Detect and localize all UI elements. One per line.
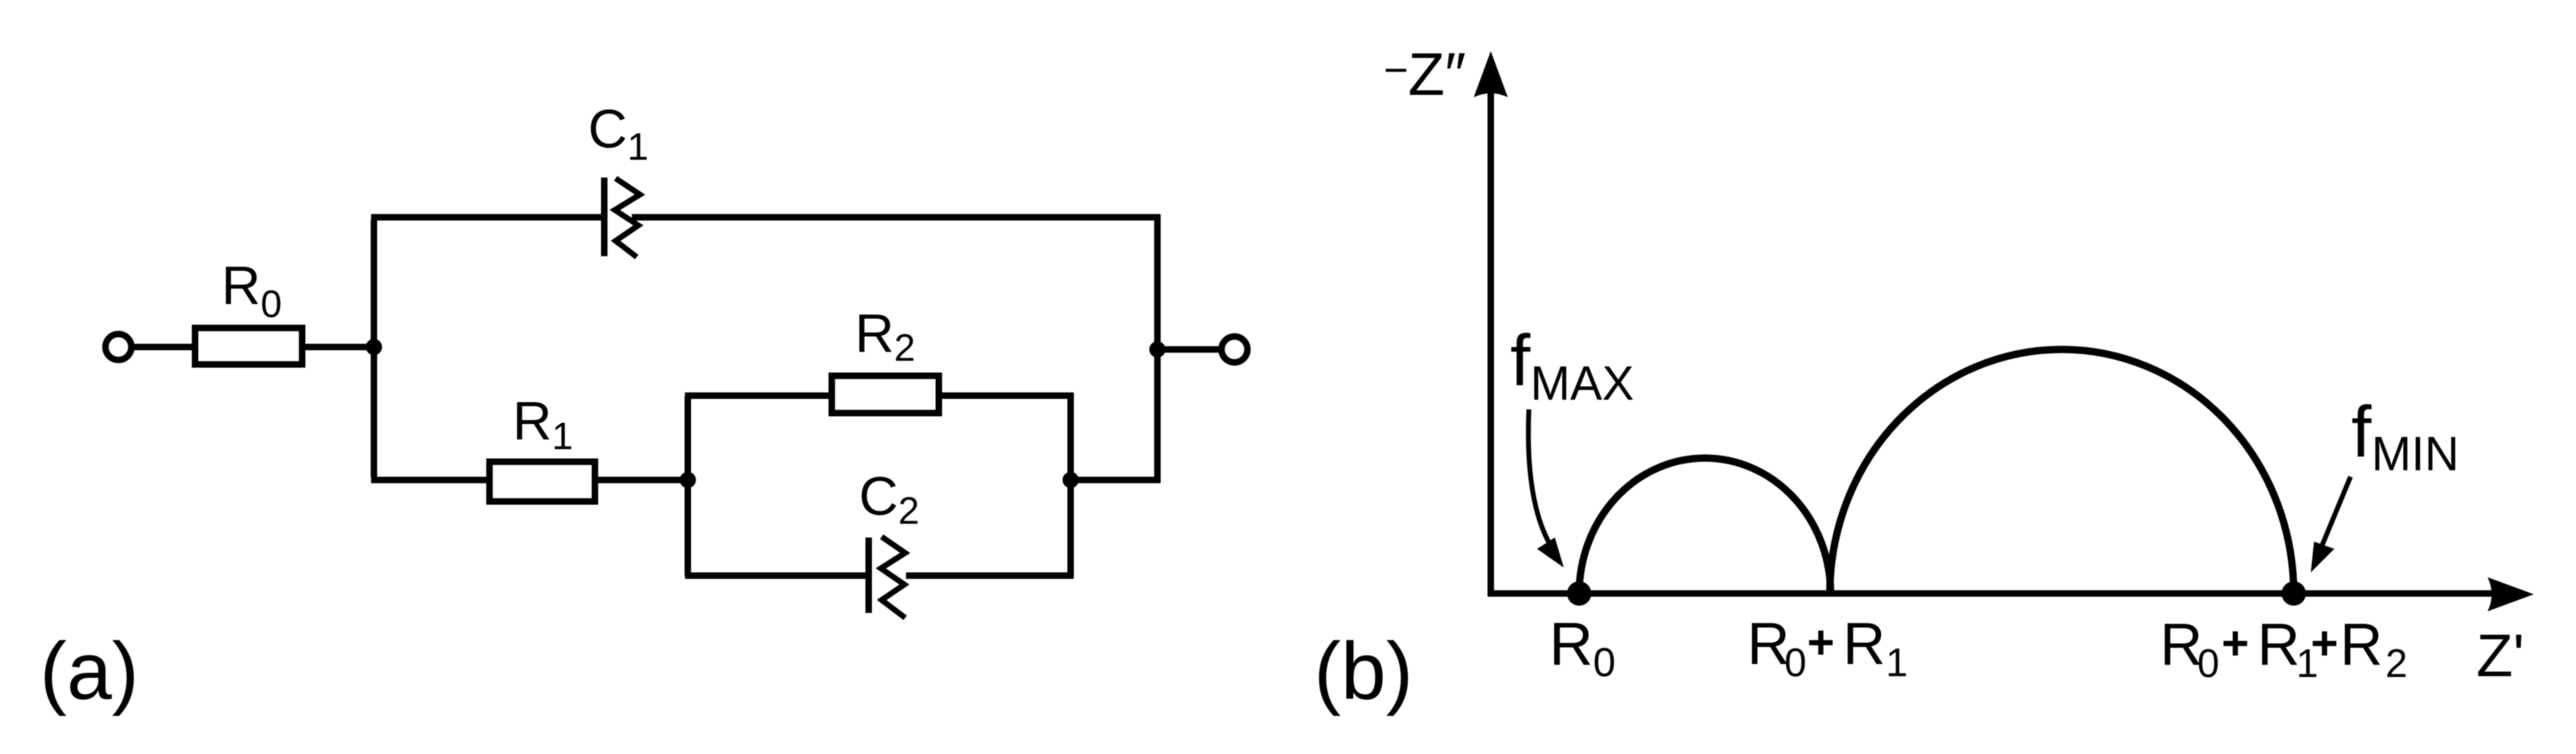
svg-text:R0+R1+R2: R0+R1+R2 — [2160, 612, 2407, 686]
wire inner top right segment — [942, 392, 1074, 399]
arrowhead fMIN — [2311, 542, 2334, 572]
node A junction dot — [366, 339, 382, 355]
capacitor C2 (CPE) zigzag plate — [881, 537, 905, 618]
node R0+R1+R2 dot on axis — [2282, 581, 2306, 606]
node R0 dot on axis — [1567, 581, 1591, 606]
svg-text:(a): (a) — [40, 626, 139, 717]
capacitor C2 (CPE) left plate — [865, 538, 872, 613]
svg-text:−Z″: −Z″ — [1384, 41, 1466, 108]
semicircle arc 2 — [1830, 349, 2294, 593]
svg-text:R0+R1: R0+R1 — [1747, 611, 1908, 685]
svg-text:R1: R1 — [513, 391, 573, 457]
node B junction dot — [680, 472, 696, 488]
node C junction dot — [1063, 472, 1079, 488]
resistor R0 — [195, 328, 303, 365]
wire outer right vertical — [1154, 215, 1161, 483]
wire top branch right segment — [632, 214, 1161, 221]
semicircle arc 1 — [1579, 458, 1831, 593]
wire inner bottom left segment — [685, 572, 869, 579]
svg-text:(b): (b) — [1314, 626, 1413, 717]
y-axis arrowhead — [1474, 51, 1508, 97]
wire inner right vertical — [1067, 393, 1074, 579]
wire output — [1157, 346, 1221, 353]
svg-text:Z': Z' — [2476, 622, 2524, 689]
wire input to R0 — [134, 344, 195, 350]
wire inner left vertical — [685, 396, 691, 576]
svg-text:C2: C2 — [859, 466, 920, 532]
svg-text:fMIN: fMIN — [2351, 391, 2459, 481]
svg-text:fMAX: fMAX — [1510, 319, 1634, 410]
terminal left (input) — [105, 334, 131, 360]
terminal right (output) — [1221, 336, 1247, 362]
wire R1 to node B — [598, 477, 688, 483]
resistor R2 — [832, 376, 939, 413]
wire bottom branch left segment — [371, 477, 490, 483]
wire node C to outer right vertical — [1071, 477, 1161, 483]
capacitor C1 (CPE) left plate — [601, 178, 608, 256]
x-axis line — [1488, 590, 2494, 597]
svg-text:R0: R0 — [1549, 610, 1616, 685]
capacitor C1 (CPE) zigzag plate — [615, 178, 640, 257]
wire inner bottom right segment — [906, 572, 1074, 579]
wire inner top left segment — [685, 392, 832, 399]
resistor R1 — [490, 462, 595, 502]
wire top branch left segment — [371, 214, 605, 221]
arrow fMIN line — [2321, 477, 2351, 547]
y-axis line — [1488, 89, 1494, 593]
svg-text:R2: R2 — [855, 303, 916, 369]
arrowhead fMAX — [1537, 538, 1564, 568]
arrow fMAX curved — [1528, 409, 1552, 547]
wire left vertical branch — [371, 221, 377, 478]
x-axis arrowhead — [2488, 577, 2534, 611]
svg-text:C1: C1 — [588, 99, 649, 168]
svg-text:R0: R0 — [221, 255, 282, 325]
node D junction dot — [1149, 341, 1166, 358]
wire R0 to node A — [305, 344, 374, 350]
